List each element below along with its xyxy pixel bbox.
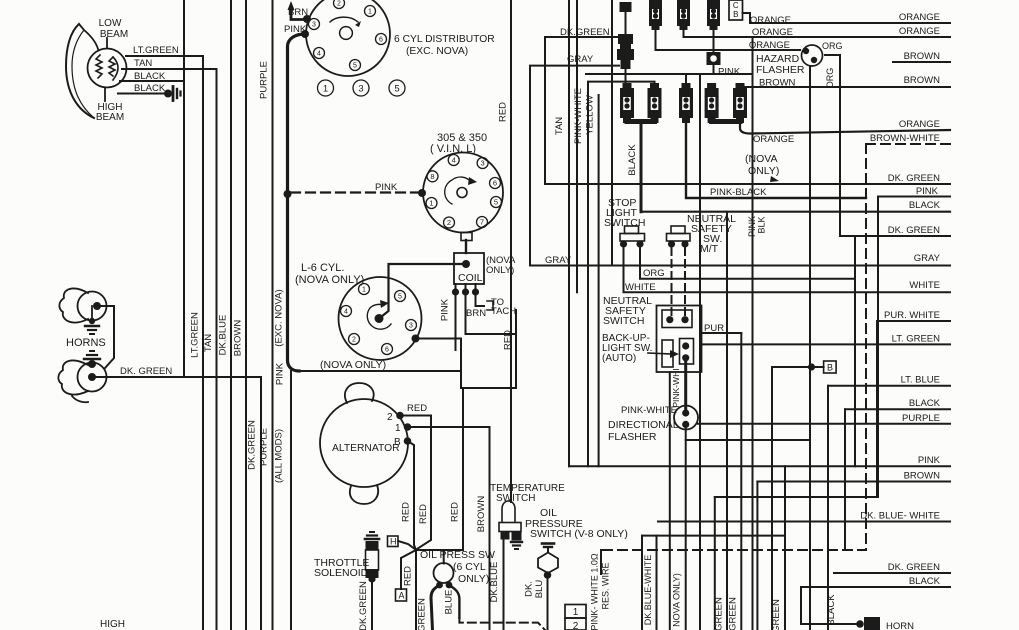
wire x700 down: [699, 74, 701, 630]
svg-text:BRN: BRN: [466, 308, 486, 319]
svg-text:PURPLE: PURPLE: [259, 428, 270, 466]
ground throttle solenoid: [370, 531, 374, 533]
svg-text:GRAY: GRAY: [545, 255, 572, 266]
junction node: [416, 388, 463, 550]
wire dashed to dist: [459, 618, 545, 630]
wire vertical x612: [611, 0, 613, 266]
svg-text:(EXC. NOVA): (EXC. NOVA): [406, 46, 468, 57]
wire distributor to coil: [465, 240, 467, 253]
svg-text:TAN: TAN: [134, 58, 152, 69]
svg-text:PINK: PINK: [375, 182, 398, 193]
svg-text:5: 5: [494, 198, 498, 207]
ground temp switch: [511, 541, 522, 543]
svg-text:1: 1: [323, 83, 328, 94]
svg-text:BLACK: BLACK: [627, 144, 638, 176]
svg-text:BROWN-WHITE: BROWN-WHITE: [870, 133, 940, 144]
svg-text:TAN: TAN: [554, 117, 565, 135]
svg-text:BROWN: BROWN: [476, 496, 487, 533]
wire x757: [756, 482, 758, 630]
wire x810 long: [809, 66, 811, 630]
svg-text:FLASHER: FLASHER: [608, 431, 657, 443]
svg-text:PINK-WHITE: PINK-WHITE: [573, 88, 584, 144]
svg-text:ALTERNATOR: ALTERNATOR: [332, 443, 400, 454]
wire horn jumper: [97, 306, 114, 368]
flasher ORG circle: [802, 45, 823, 66]
svg-text:TAN: TAN: [203, 334, 214, 352]
wire x770: [771, 367, 773, 630]
wire ORG vertical: [825, 55, 840, 236]
ground oil pressure sw: [542, 542, 554, 545]
terminal H: [388, 536, 399, 547]
svg-text:5: 5: [394, 83, 399, 94]
horn 1: [59, 289, 88, 323]
svg-text:B: B: [394, 437, 401, 448]
svg-text:DIRECTIONAL: DIRECTIONAL: [608, 419, 679, 431]
wire bottom horizontal: [641, 536, 643, 630]
svg-text:B: B: [827, 363, 833, 373]
svg-text:SWITCH (V-8 ONLY): SWITCH (V-8 ONLY): [530, 528, 628, 540]
svg-text:TACH: TACH: [491, 306, 516, 317]
wire DK.BLU: [547, 575, 549, 630]
svg-text:PINK- WHITE 1.0Ω: PINK- WHITE 1.0Ω: [590, 553, 600, 630]
svg-text:COIL: COIL: [458, 272, 483, 284]
connector 1 2: [565, 605, 586, 619]
fuse row2 f3: [682, 83, 691, 89]
distributor 6-cyl (exc nova): [306, 0, 390, 76]
svg-text:A: A: [399, 591, 405, 601]
svg-text:7: 7: [480, 218, 484, 227]
wire BROWN from terminal 1: [408, 427, 490, 630]
svg-text:ORG: ORG: [825, 68, 835, 89]
wire x751: [752, 37, 754, 630]
wire vertical x577: [576, 0, 578, 292]
svg-text:PURPLE: PURPLE: [259, 61, 270, 99]
circuit breaker CB: [729, 0, 743, 20]
svg-text:BLK: BLK: [757, 216, 767, 233]
wire (ALL MODS) vertical: [290, 371, 292, 630]
wire orange from fuse5: [740, 121, 950, 134]
svg-text:4: 4: [344, 309, 348, 316]
ground headlamp: [164, 90, 172, 98]
svg-text:1: 1: [368, 9, 372, 16]
svg-text:BEAM: BEAM: [96, 112, 124, 123]
svg-text:DK.: DK.: [524, 581, 535, 597]
wire RED from coil down: [466, 292, 517, 334]
svg-text:1: 1: [395, 423, 401, 434]
svg-text:BLACK: BLACK: [909, 576, 941, 587]
svg-text:DK.BLUE-WHITE: DK.BLUE-WHITE: [643, 555, 653, 626]
svg-text:(NOVA: (NOVA: [745, 153, 777, 165]
wire fuse tops to pink bus: [685, 74, 687, 83]
svg-text:(EXC. NOVA): (EXC. NOVA): [274, 289, 285, 346]
svg-text:FLASHER: FLASHER: [756, 64, 805, 76]
svg-text:PINK: PINK: [275, 362, 286, 385]
svg-text:DK. GREEN: DK. GREEN: [888, 173, 940, 184]
svg-text:RES. WIRE: RES. WIRE: [601, 562, 611, 609]
wire x785: [784, 466, 786, 630]
fuse row2 f5: [736, 83, 745, 89]
wire PURPLE vertical: [272, 0, 274, 630]
wire fuse F3 to orange: [684, 28, 951, 37]
wire BLUE: [449, 585, 459, 618]
wire distributor center to coil: [379, 264, 464, 319]
svg-text:PINK: PINK: [916, 186, 939, 197]
horn 2: [58, 361, 88, 403]
terminal A: [401, 550, 416, 589]
svg-text:BLACK: BLACK: [826, 594, 837, 626]
svg-text:L-6 CYL.: L-6 CYL.: [301, 262, 344, 274]
svg-text:WHITE: WHITE: [909, 280, 940, 291]
svg-text:ORANGE: ORANGE: [749, 40, 790, 51]
svg-text:3: 3: [312, 22, 316, 29]
connector fuse DK.GREEN: [618, 34, 633, 44]
svg-text:GREEN: GREEN: [714, 597, 725, 630]
svg-text:5: 5: [398, 294, 402, 301]
svg-text:GREEN: GREEN: [417, 598, 428, 630]
wire DK.BLUE: [503, 540, 505, 630]
svg-text:B: B: [733, 10, 738, 19]
svg-text:PINK-WHI: PINK-WHI: [671, 368, 681, 407]
svg-text:PINK-WHITE: PINK-WHITE: [621, 405, 677, 416]
svg-text:LT. GREEN: LT. GREEN: [892, 333, 941, 344]
wire GREEN: [431, 585, 440, 630]
svg-text:(NOVA ONLY): (NOVA ONLY): [295, 274, 364, 286]
wire fuse F2 to orange: [656, 28, 801, 50]
coil U1: [454, 253, 484, 284]
svg-text:2: 2: [352, 337, 356, 344]
terminal B: [808, 363, 815, 370]
svg-text:3: 3: [481, 159, 485, 168]
svg-text:DK.BLUE: DK.BLUE: [489, 562, 500, 603]
svg-text:ORG: ORG: [643, 268, 665, 279]
svg-text:RED: RED: [403, 566, 414, 586]
svg-text:DK. BLUE- WHITE: DK. BLUE- WHITE: [860, 511, 940, 522]
svg-text:SOLENOID: SOLENOID: [314, 567, 369, 579]
wire PINK-WHITE vertical: [588, 82, 655, 467]
svg-text:PINK: PINK: [918, 455, 941, 466]
svg-text:2: 2: [387, 412, 393, 423]
wire nova only to distributor: [412, 335, 420, 343]
svg-text:M/T: M/T: [700, 243, 719, 255]
svg-text:GREEN: GREEN: [771, 599, 782, 630]
svg-text:BROWN: BROWN: [904, 471, 941, 482]
svg-text:NOVA ONLY): NOVA ONLY): [672, 573, 682, 627]
wire PINK-WHI to flasher: [684, 358, 687, 411]
svg-text:LT.GREEN: LT.GREEN: [190, 312, 201, 358]
svg-text:BEAM: BEAM: [100, 29, 128, 40]
svg-text:ORANGE: ORANGE: [899, 26, 940, 37]
wire PINK heavy from distributor: [288, 34, 306, 371]
svg-text:1: 1: [362, 287, 366, 294]
svg-text:ONLY): ONLY): [458, 573, 489, 585]
svg-text:(6 CYL: (6 CYL: [453, 561, 486, 573]
svg-text:BROWN: BROWN: [904, 51, 941, 62]
wire fuse F4 down: [713, 28, 715, 52]
svg-text:1: 1: [429, 199, 433, 208]
svg-text:DK. GREEN: DK. GREEN: [120, 366, 172, 377]
wire TAN vertical: [568, 0, 570, 466]
fuse F3 top: [677, 0, 690, 9]
fuse F2 top: [649, 0, 662, 9]
svg-text:6: 6: [493, 179, 497, 188]
ground above horn 2: [90, 350, 94, 352]
svg-text:SWITCH: SWITCH: [496, 493, 535, 504]
wire WHITE from stop sw: [624, 244, 951, 292]
wire x669: [669, 372, 671, 630]
svg-text:WHITE: WHITE: [625, 282, 656, 293]
wire dashed to auto switch: [671, 248, 673, 316]
svg-text:6 CYL DISTRIBUTOR: 6 CYL DISTRIBUTOR: [394, 34, 495, 45]
fuse row2 f2: [650, 83, 659, 89]
svg-text:ORANGE: ORANGE: [752, 27, 793, 38]
svg-text:RED: RED: [407, 403, 427, 414]
svg-text:ORANGE: ORANGE: [750, 15, 791, 26]
svg-text:GRAY: GRAY: [567, 54, 594, 65]
coil terminals: [455, 284, 457, 290]
svg-text:RED: RED: [401, 502, 412, 522]
headlamp: [66, 24, 94, 118]
wire x828: [827, 386, 829, 630]
wire ORG from stop sw: [640, 244, 855, 279]
wire black U elbow: [627, 117, 655, 122]
svg-text:DK.BLUE: DK.BLUE: [218, 315, 229, 356]
svg-text:6: 6: [379, 37, 383, 44]
svg-text:2: 2: [447, 218, 451, 227]
fuse F4 top: [707, 0, 720, 9]
svg-text:LT. BLUE: LT. BLUE: [901, 375, 940, 386]
fuse row2 f1: [623, 83, 632, 89]
svg-text:PINK-BLACK: PINK-BLACK: [710, 187, 767, 198]
wire x740 step: [740, 333, 742, 630]
svg-text:LT.GREEN: LT.GREEN: [133, 45, 179, 56]
svg-text:HORN: HORN: [886, 621, 914, 630]
svg-text:BLACK: BLACK: [909, 200, 941, 211]
svg-text:DK.GREEN: DK.GREEN: [358, 581, 369, 630]
svg-text:1: 1: [573, 607, 579, 618]
wire BROWN vertical: [245, 0, 247, 630]
svg-text:BLACK: BLACK: [909, 398, 941, 409]
svg-text:BROWN: BROWN: [233, 320, 244, 357]
svg-text:ORANGE: ORANGE: [899, 119, 940, 130]
svg-text:PURPLE: PURPLE: [902, 413, 940, 424]
wire RED from terminal B: [408, 441, 417, 550]
svg-text:PINK: PINK: [440, 298, 451, 321]
svg-text:HIGH: HIGH: [100, 619, 125, 630]
wire BLACK vertical: [183, 0, 185, 377]
ground between horns: [91, 306, 93, 320]
svg-text:(ALL MODS): (ALL MODS): [274, 429, 285, 483]
wire DK.GREEN solenoid: [371, 580, 373, 630]
svg-text:GRAY: GRAY: [914, 253, 941, 264]
svg-text:(AUTO): (AUTO): [602, 353, 636, 364]
svg-text:8: 8: [430, 172, 434, 181]
wire x855 vertical: [854, 236, 856, 466]
svg-text:ORANGE: ORANGE: [753, 134, 794, 145]
svg-text:YELLOW: YELLOW: [585, 95, 596, 135]
svg-text:ORG: ORG: [822, 41, 843, 51]
svg-text:HORNS: HORNS: [66, 337, 106, 349]
svg-text:2: 2: [573, 621, 579, 630]
svg-text:LOW: LOW: [99, 18, 122, 29]
svg-text:3: 3: [358, 83, 363, 94]
svg-text:PINK: PINK: [718, 67, 741, 78]
wire U elbow fuses 4-5: [712, 117, 740, 122]
wire DK.BLUE vertical: [230, 0, 232, 630]
svg-text:BLUE: BLUE: [444, 590, 455, 615]
wire RED vertical top: [510, 0, 512, 502]
svg-text:DK. GREEN: DK. GREEN: [888, 562, 940, 573]
svg-text:RED: RED: [498, 102, 509, 122]
svg-text:(NOVA ONLY): (NOVA ONLY): [320, 359, 386, 371]
svg-text:BROWN: BROWN: [904, 75, 941, 86]
wire x727: [726, 212, 728, 630]
svg-text:RED: RED: [450, 502, 461, 522]
wire flasher down: [685, 424, 687, 630]
svg-text:H: H: [390, 537, 397, 547]
svg-text:SWITCH: SWITCH: [603, 315, 644, 327]
svg-text:ORANGE: ORANGE: [899, 12, 940, 23]
svg-text:4: 4: [452, 156, 456, 165]
fuse F1 top: [620, 2, 632, 12]
svg-text:DK. GREEN: DK. GREEN: [888, 225, 940, 236]
svg-text:PUR. WHITE: PUR. WHITE: [884, 310, 940, 321]
svg-text:3: 3: [409, 323, 413, 330]
hazard connector: [707, 52, 721, 65]
wire YELLOW vertical: [598, 95, 600, 466]
svg-text:OIL PRESS SW: OIL PRESS SW: [420, 549, 495, 561]
wire x714: [715, 321, 877, 497]
alternator: [345, 383, 374, 403]
svg-text:RED: RED: [418, 504, 429, 524]
horn relay: [856, 620, 864, 628]
svg-text:C: C: [733, 1, 739, 10]
svg-text:DK.GREEN: DK.GREEN: [247, 420, 258, 470]
terminals 1 3 5: [318, 80, 334, 96]
fuse row2 f4: [707, 83, 716, 89]
wire dashed loop: [601, 144, 866, 550]
svg-text:6: 6: [385, 347, 389, 354]
svg-text:5: 5: [353, 63, 357, 70]
wire pink-black from fuse f3: [686, 123, 866, 198]
svg-text:BLACK: BLACK: [134, 83, 166, 94]
svg-text:BLU: BLU: [534, 580, 545, 599]
wire x656: [656, 536, 658, 630]
svg-text:GREEN: GREEN: [728, 597, 739, 630]
svg-text:2: 2: [337, 1, 341, 8]
wire x845: [844, 409, 846, 550]
svg-text:4: 4: [317, 51, 321, 58]
